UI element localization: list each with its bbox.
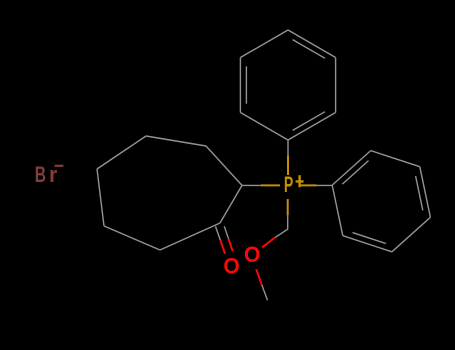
wire ringA edge 5 (335, 58, 337, 113)
wire ringA edge 6 (288, 113, 336, 141)
wire P to top phenyl (upper half gray, lower half orange) (287, 140, 289, 156)
wire ringB edge 4 (392, 217, 431, 252)
svg-text:O: O (223, 253, 239, 278)
wire ringC edge 2 (146, 136, 206, 146)
wire ringB edge 5 (343, 236, 392, 252)
double bond C=O line 1 (216, 226, 221, 240)
wire ringC edge 4 (97, 169, 104, 226)
wire ringC edge 3 (97, 136, 146, 169)
wire CH2 to ether O (275, 229, 288, 238)
wire ringB edge 1 (332, 151, 371, 186)
wire ringB edge 2 (371, 151, 420, 167)
svg-text:B: B (35, 162, 46, 187)
wire ringC edge 6 (160, 223, 220, 250)
wire ringB inner double 3 (416, 176, 423, 210)
wire ringA inner double 6 (293, 112, 325, 131)
wire ether O to CH3 (256, 269, 262, 285)
double bond C=O line 2 (224, 226, 228, 238)
wire ringB edge 6 (332, 185, 343, 236)
wire P to right phenyl (300, 184, 317, 186)
wire ringA inner double 4 (293, 40, 325, 59)
wire P to ring-C carbon (261, 184, 280, 186)
wire ringA edge 3 (240, 30, 288, 58)
svg-text:P: P (284, 172, 293, 197)
wire ringC edge 1 (206, 146, 242, 185)
wire ringC edge 7 (220, 185, 242, 223)
wire ringA edge 1 (240, 113, 288, 141)
wire ringA edge 4 (288, 30, 336, 58)
wire ringA edge 2 (239, 58, 241, 113)
wire P to methoxymethyl CH2 (287, 199, 289, 215)
svg-text:O: O (244, 242, 260, 267)
wire ringB inner double 1 (342, 161, 368, 185)
wire ringB edge 3 (420, 167, 431, 218)
wire ringB inner double 5 (353, 233, 386, 244)
wire ringA inner double 2 (245, 66, 247, 103)
wire ringC edge 5 (104, 226, 160, 250)
